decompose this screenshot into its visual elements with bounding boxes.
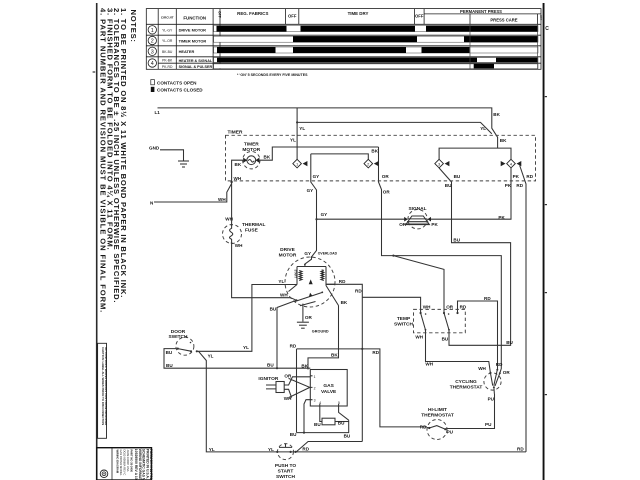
wire BU bottom run under gas valve	[297, 420, 349, 432]
svg-text:SWITCH: SWITCH	[276, 474, 295, 480]
svg-text:MAIN: MAIN	[320, 270, 324, 277]
svg-text:2: 2	[151, 39, 154, 45]
svg-text:BU: BU	[290, 432, 297, 437]
svg-text:YL: YL	[209, 447, 215, 452]
svg-text:GY: GY	[307, 188, 314, 193]
svg-text:RD: RD	[302, 446, 309, 451]
svg-text:WH: WH	[280, 292, 288, 297]
hi-limit thermostat	[427, 420, 447, 440]
svg-text:WH: WH	[423, 305, 431, 310]
svg-text:YL-GY: YL-GY	[162, 28, 173, 32]
timing chart outer frame	[146, 9, 541, 70]
wire gas valve pin 4 lead to resistor	[320, 406, 322, 422]
svg-text:GROUND: GROUND	[312, 330, 329, 334]
drive motor start winding	[296, 267, 298, 285]
svg-text:RD: RD	[355, 289, 362, 294]
timing chart header bottom line	[146, 23, 541, 25]
timer bar row 1 outline	[214, 26, 538, 32]
svg-text:BU: BU	[338, 420, 345, 425]
circled row number 1	[148, 26, 156, 34]
svg-text:PU: PU	[485, 422, 492, 427]
svg-text:SIGNAL & PULSER: SIGNAL & PULSER	[179, 65, 213, 69]
timer contact 3	[435, 159, 450, 168]
timer bar row 1 closed segments	[217, 26, 287, 32]
svg-text:PK-BK: PK-BK	[162, 59, 173, 63]
svg-text:GY: GY	[321, 212, 328, 217]
timer dashed enclosure	[226, 135, 536, 181]
timer bar row 2 closed segments	[293, 36, 417, 42]
svg-text:BK: BK	[301, 364, 308, 369]
svg-text:PK: PK	[431, 222, 438, 227]
svg-text:* ‘ON’ 5 SECONDS EVERY FIVE MI: * ‘ON’ 5 SECONDS EVERY FIVE MINUTES	[237, 73, 308, 77]
circled row number 2	[148, 36, 156, 44]
wire RD from drive motor down to start circuit	[326, 284, 362, 441]
svg-text:3: 3	[314, 399, 316, 403]
svg-text:WIRING INFORMATION GAS: WIRING INFORMATION GAS	[138, 449, 142, 480]
svg-text:OVERLOAD: OVERLOAD	[318, 252, 338, 256]
caution note box (rotated text)	[98, 343, 107, 438]
wire OR diagonal branch to temp switch	[393, 256, 444, 313]
svg-text:BU: BU	[506, 340, 513, 345]
logo circle	[100, 470, 108, 478]
push to start switch	[276, 444, 296, 460]
wire OR net from contact 2 down and across	[379, 168, 502, 373]
svg-text:CIRCUIT: CIRCUIT	[161, 16, 174, 20]
timer contact 1	[293, 159, 308, 168]
svg-text:TIME DRY: TIME DRY	[348, 11, 369, 16]
wire N neutral line with diagonal jog	[154, 184, 232, 203]
timing chart column lines	[157, 9, 159, 70]
svg-text:YL-OR: YL-OR	[162, 39, 173, 43]
timer motor M1	[243, 152, 260, 169]
svg-text:WIRING DIAGRAM: WIRING DIAGRAM	[116, 450, 120, 474]
svg-text:4: 4	[319, 401, 321, 405]
svg-text:4: 4	[151, 61, 154, 67]
junction dot GY signal branch	[315, 218, 317, 220]
svg-text:YL: YL	[243, 345, 249, 350]
svg-text:GAS DRYER MODEL: GAS DRYER MODEL	[119, 450, 123, 477]
svg-text:BU: BU	[267, 363, 274, 368]
wire YL branch along top to BK corner	[297, 122, 492, 133]
svg-text:BK: BK	[264, 155, 271, 160]
svg-text:TIMER: TIMER	[244, 142, 259, 148]
drive motor rotor arrow	[309, 279, 313, 284]
svg-text:YL: YL	[278, 279, 284, 284]
svg-text:RD: RD	[517, 446, 524, 451]
svg-text:HEATER: HEATER	[179, 49, 195, 54]
wire L1 supply line	[158, 108, 498, 148]
svg-text:TIMER: TIMER	[228, 130, 243, 136]
ignitor body	[266, 382, 284, 393]
wire PU hi-limit to cycling thermostat	[447, 394, 495, 429]
svg-text:WH: WH	[425, 362, 433, 367]
gas valve pin ticks	[310, 376, 338, 406]
signal buzzer	[404, 210, 431, 229]
svg-text:OR: OR	[305, 315, 313, 320]
ground symbol at drive motor	[297, 322, 309, 328]
svg-text:PART NO 35-2450: PART NO 35-2450	[130, 450, 134, 473]
right narrow column line through rows	[537, 24, 539, 69]
wire BU door switch lead and run to gas valve	[164, 349, 310, 369]
junction dot WH node at timer	[230, 181, 232, 183]
timer contact 4	[501, 159, 522, 168]
svg-text:START: START	[278, 469, 294, 475]
svg-text:WH: WH	[415, 334, 423, 339]
svg-text:PU: PU	[488, 396, 495, 401]
svg-text:OR: OR	[399, 222, 407, 227]
svg-text:BK: BK	[493, 112, 500, 117]
svg-text:CONTACTS CLOSED: CONTACTS CLOSED	[157, 88, 203, 93]
svg-text:GY: GY	[313, 174, 320, 179]
drive motor winding bottoms	[289, 284, 339, 305]
svg-text:RD: RD	[420, 425, 427, 430]
wire gas valve pin 5 lead	[339, 406, 349, 420]
svg-text:MOTOR: MOTOR	[242, 147, 260, 153]
gas valve box	[310, 370, 347, 407]
legend contacts closed symbol	[151, 87, 155, 92]
circled row number 4	[148, 59, 156, 67]
timer bar row 2 outline	[214, 36, 538, 42]
timer bar row 4b outline	[214, 64, 538, 69]
svg-text:SWITCH: SWITCH	[169, 334, 188, 340]
ground symbol at GND	[178, 161, 189, 167]
wire GND stub	[160, 150, 184, 161]
svg-text:YL: YL	[299, 126, 305, 131]
svg-text:DOOR: DOOR	[171, 329, 186, 335]
wire bridge from contact 1 arm to contact 2 top	[311, 154, 369, 159]
gas valve resistor	[322, 418, 335, 425]
svg-text:WH: WH	[284, 396, 292, 401]
svg-text:PU: PU	[447, 429, 454, 434]
svg-text:OR: OR	[382, 174, 390, 179]
svg-text:BK: BK	[331, 352, 338, 357]
svg-text:OF CONTROLS. WIRING ERRORS CAN: OF CONTROLS. WIRING ERRORS CAN CAUSE IMP…	[104, 347, 108, 425]
svg-text:WH: WH	[225, 217, 233, 222]
svg-text:BU: BU	[270, 306, 277, 311]
legend contacts open symbol	[151, 80, 155, 85]
ignitor plug connector to gas valve	[284, 377, 310, 398]
svg-text:PK: PK	[505, 183, 512, 188]
svg-text:BU: BU	[344, 433, 351, 438]
wire bottom return YL/RD	[199, 351, 527, 452]
svg-text:TIMER MOTOR: TIMER MOTOR	[179, 38, 207, 43]
svg-text:WH: WH	[218, 197, 226, 202]
wire RD/BU drop at x296	[296, 349, 298, 433]
svg-text:REG. FABRICS: REG. FABRICS	[237, 11, 268, 16]
svg-text:BK: BK	[341, 300, 348, 305]
svg-text:OFF: OFF	[218, 11, 222, 18]
svg-text:OFF: OFF	[539, 15, 543, 21]
svg-text:RD: RD	[516, 183, 523, 188]
svg-text:WH: WH	[235, 243, 243, 248]
press care column line through rows	[469, 24, 471, 69]
temp switch contacts and blades	[420, 312, 459, 331]
svg-text:JADE CORP. USA: JADE CORP. USA	[126, 450, 130, 472]
timer bar row 3 outline	[214, 47, 538, 53]
wire bus linking contacts 3 and 4 tops	[439, 148, 511, 159]
wire RD from temp switch to cycling thermostat	[458, 301, 498, 370]
wire resistor right lead	[335, 421, 349, 423]
svg-text:BU: BU	[314, 422, 321, 427]
door switch	[176, 337, 198, 355]
svg-text:RD: RD	[339, 279, 346, 284]
wire WH from temp switch to cycling thermostat	[426, 330, 491, 373]
svg-text:THERMOSTAT: THERMOSTAT	[421, 413, 454, 419]
svg-text:BU: BU	[445, 183, 452, 188]
timer bar row 4b closed segment	[474, 64, 494, 69]
svg-text:OFF: OFF	[288, 14, 297, 19]
timer bar row 4a outline	[214, 58, 538, 63]
svg-text:YL: YL	[208, 354, 214, 359]
svg-text:WH: WH	[234, 176, 242, 181]
svg-text:BU: BU	[166, 350, 173, 355]
svg-text:1: 1	[314, 375, 316, 379]
svg-text:YL: YL	[290, 138, 296, 143]
svg-text:WH: WH	[478, 366, 486, 371]
svg-text:DC62-00068A REV C: DC62-00068A REV C	[123, 450, 127, 476]
svg-text:CONTACTS OPEN: CONTACTS OPEN	[157, 80, 197, 85]
wire YL door switch to drive motor	[197, 285, 297, 352]
drive motor overload switch	[304, 256, 312, 266]
wire PK from signal to timer contact 4	[431, 168, 511, 219]
tick mark outside left border	[93, 71, 96, 72]
svg-text:DRIVE MOTOR: DRIVE MOTOR	[179, 28, 207, 33]
drive motor centrifugal switch	[291, 291, 324, 305]
svg-text:VALVE: VALVE	[321, 389, 337, 395]
svg-text:PERMANENT PRESS: PERMANENT PRESS	[460, 9, 502, 14]
svg-text:NOTES:: NOTES:	[129, 10, 138, 43]
svg-text:BK-BU: BK-BU	[162, 50, 173, 54]
svg-text:RD: RD	[460, 305, 467, 310]
svg-text:10529500 REV A 10/98 W: 10529500 REV A 10/98 W	[134, 449, 138, 480]
junction dot BU motor/door	[276, 367, 278, 369]
svg-text:YL: YL	[480, 126, 486, 131]
cycling thermostat	[484, 369, 501, 394]
wire gas valve pin 3 WH lead down	[304, 400, 310, 433]
svg-text:L1: L1	[155, 110, 161, 115]
junction dot OR branch	[392, 255, 394, 257]
svg-text:GY: GY	[304, 251, 311, 256]
drive motor main winding	[325, 267, 327, 286]
junction dot WH pin3 at bottom run	[303, 432, 305, 434]
wire timer motor right lead up and over to contact 2 arm	[259, 147, 378, 160]
svg-text:PK: PK	[498, 215, 505, 220]
svg-text:RD: RD	[290, 344, 297, 349]
svg-text:OR: OR	[503, 370, 511, 375]
timer bar row 3 closed segments	[217, 47, 276, 53]
wire GY/OR branch to signal	[317, 218, 405, 220]
circled row number 3	[148, 47, 156, 55]
wire GY net from contact bridge down to junction	[311, 154, 317, 257]
left page border	[96, 3, 98, 480]
svg-text:SIGNAL: SIGNAL	[408, 206, 426, 212]
wire contact 2 arm riser	[378, 147, 380, 168]
svg-text:OFF: OFF	[415, 14, 424, 19]
svg-text:RD: RD	[372, 350, 379, 355]
svg-text:BU: BU	[166, 363, 173, 368]
thermal fuse	[223, 224, 242, 244]
svg-text:START: START	[294, 270, 298, 279]
svg-text:3: 3	[151, 49, 154, 55]
svg-text:GND: GND	[149, 146, 160, 151]
wire BU drop from drive motor	[277, 300, 297, 368]
svg-text:BK: BK	[500, 138, 507, 143]
svg-text:HEATER & SIGNAL: HEATER & SIGNAL	[179, 59, 213, 63]
svg-text:OR: OR	[284, 374, 292, 379]
wire BK from drive motor to gas valve	[308, 306, 339, 370]
svg-text:RD: RD	[526, 174, 533, 179]
wire YL drop from L1 to timer contact 1	[296, 108, 298, 159]
svg-text:5: 5	[338, 401, 340, 405]
svg-text:BU: BU	[454, 174, 461, 179]
svg-text:PUSH TO: PUSH TO	[275, 463, 297, 469]
wire RD mid branch to hi-limit	[297, 349, 428, 427]
svg-text:CYCLING: CYCLING	[455, 379, 477, 385]
svg-text:MOTOR: MOTOR	[279, 253, 297, 259]
svg-text:YL: YL	[268, 447, 274, 452]
wire RD push-to-start bypass diagonal	[296, 442, 362, 452]
wire RD branch to temp switch common	[362, 297, 420, 312]
svg-text:FORM 8½ X 11 FOLDED BND: FORM 8½ X 11 FOLDED BND	[149, 449, 153, 480]
wire thermal fuse bottom to drive motor WH terminal	[232, 243, 291, 297]
svg-text:FUNCTION: FUNCTION	[183, 15, 206, 20]
svg-text:RD: RD	[484, 296, 491, 301]
svg-text:HI-LIMIT: HI-LIMIT	[428, 407, 447, 413]
timing chart row separators	[146, 34, 541, 36]
right page border	[543, 3, 545, 480]
svg-text:PRINTED IN U.S.A. 562MB: PRINTED IN U.S.A. 562MB	[145, 449, 149, 480]
drive motor winding loop bus	[297, 266, 326, 268]
title block stamp	[97, 448, 153, 480]
svg-text:4. PART NUMBER AND REVISION MU: 4. PART NUMBER AND REVISION MUST BE VISI…	[99, 8, 108, 313]
svg-text:OR: OR	[446, 305, 454, 310]
junction dot RD branch at x362	[361, 348, 363, 350]
svg-text:BK: BK	[371, 149, 378, 154]
svg-text:THERMOSTAT: THERMOSTAT	[450, 385, 483, 391]
svg-text:BK: BK	[235, 162, 242, 167]
svg-text:1: 1	[151, 28, 154, 34]
svg-text:PK-RD: PK-RD	[162, 65, 173, 69]
drive motor dashed circle	[285, 257, 335, 307]
svg-text:RD: RD	[496, 362, 503, 367]
svg-text:THERMAL: THERMAL	[242, 222, 266, 228]
svg-text:IGNITOR: IGNITOR	[258, 376, 278, 382]
svg-text:C: C	[545, 26, 549, 32]
svg-text:BU: BU	[442, 337, 449, 342]
tick marks outside right border	[545, 96, 547, 97]
svg-text:TEMP: TEMP	[397, 316, 411, 322]
wire timer motor left lead down to thermal fuse	[232, 160, 244, 224]
svg-text:DRIVE: DRIVE	[280, 247, 295, 253]
wire RD from contact 4 down right side to bottom	[520, 166, 526, 452]
wire BU from contact 3 loop to temp switch	[439, 168, 511, 345]
svg-text:FUSE: FUSE	[245, 227, 259, 233]
svg-text:SWITCH: SWITCH	[394, 322, 413, 328]
svg-text:PK: PK	[513, 174, 520, 179]
junction dot YL at L1	[296, 121, 298, 123]
timer contact 2	[364, 159, 379, 168]
svg-text:PRESS CARE: PRESS CARE	[490, 17, 517, 22]
svg-text:SCHEMATIC GAS MODELS M: SCHEMATIC GAS MODELS M	[142, 449, 146, 480]
temp switch dashed box	[414, 309, 466, 332]
svg-text:BU: BU	[453, 237, 460, 242]
svg-text:GAS: GAS	[323, 383, 334, 389]
drive motor ground lead OR	[302, 304, 304, 322]
svg-text:OR: OR	[383, 190, 391, 195]
timer bar row 4a closed segments	[217, 58, 477, 63]
svg-text:2: 2	[314, 386, 316, 390]
